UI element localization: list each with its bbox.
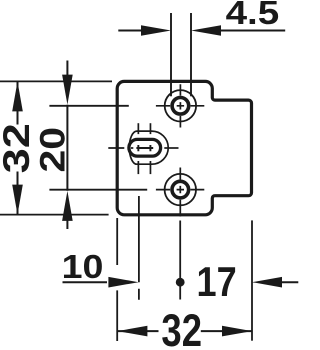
- oblong slot: hash mark left top: [137, 123, 139, 134]
- oblong slot: inner bar with end ticks: [136, 145, 153, 151]
- oblong slot: centerline dash at left arc: [131, 147, 133, 149]
- screw hole top: bold ring: [172, 98, 189, 115]
- dim 32 bottom: left arrowhead: [117, 326, 147, 337]
- oblong slot: outer outline: [129, 131, 168, 164]
- dim 4.5: left arrow shaft: [118, 30, 142, 32]
- screw hole bottom: bold ring: [172, 181, 189, 198]
- dim 20 left: bottom extension line: [49, 189, 147, 191]
- svg-text:4.5: 4.5: [226, 0, 280, 31]
- dim 20 left: bottom outside arrow shaft: [66, 215, 68, 229]
- screw hole top: center plus: [177, 102, 184, 109]
- oblong slot: hash mark right bottom: [149, 161, 151, 174]
- screw hole top: crosshair horizontal: [156, 105, 204, 107]
- dim 32 bottom: dimension line right: [201, 330, 252, 332]
- bottom dims: extension line from flange right edge: [251, 220, 253, 340]
- dim 4.5: extension line left: [170, 13, 172, 96]
- oblong slot: hash mark right top: [149, 123, 151, 134]
- bottom dims: extension line from slot left center: [138, 196, 140, 300]
- mounting plate body outline: [117, 81, 251, 214]
- dim 32 left: dimension line lower: [17, 172, 19, 215]
- dim 20 left: dimension line: [66, 105, 68, 191]
- dim 17: arrow shaft: [281, 281, 298, 283]
- svg-text:17: 17: [197, 260, 237, 306]
- dim 32 left: dimension line upper: [17, 81, 19, 124]
- dim 32 left: top arrowhead: [12, 81, 23, 111]
- dim 20 left: top extension line: [49, 105, 128, 107]
- screw hole top: outer circle: [165, 90, 196, 121]
- dim 17: arrowhead: [252, 277, 282, 288]
- dim 32 bottom: right arrowhead: [222, 326, 252, 337]
- dim 32 left: bottom extension line: [0, 214, 109, 216]
- dim 4.5: left arrowhead: [141, 25, 171, 36]
- svg-text:10: 10: [62, 249, 104, 285]
- dim 20 left: bottom outside arrowhead: [62, 191, 73, 221]
- screw hole bottom: outer circle: [165, 174, 196, 205]
- dim 4.5: right arrowhead: [191, 25, 221, 36]
- screw hole bottom: crosshair horizontal: [156, 189, 204, 191]
- dim 20 left: top outside arrowhead: [62, 75, 73, 105]
- screw hole bottom: center plus: [177, 186, 184, 193]
- svg-text:32: 32: [161, 305, 202, 350]
- screw hole bottom: crosshair vertical: [179, 168, 181, 217]
- dim 4.5: extension line right: [190, 13, 192, 96]
- bottom dims: reference dot on screw centerline: [176, 278, 185, 287]
- svg-text:32: 32: [0, 123, 37, 173]
- dim 32 bottom: dimension line left: [117, 330, 158, 332]
- bottom dims: extension line from body left edge: [116, 218, 118, 341]
- dim 10: arrowhead: [108, 277, 138, 288]
- oblong slot: hash mark left bottom: [137, 161, 139, 174]
- dim 32 left: top extension line: [0, 80, 112, 82]
- screw hole top: crosshair vertical: [179, 84, 181, 127]
- oblong slot: centerline right: [164, 147, 178, 149]
- bottom dims: extension line from screw centerline: [179, 221, 181, 300]
- svg-text:20: 20: [33, 127, 73, 173]
- oblong slot: centerline left: [108, 147, 124, 149]
- dim 20 left: top outside arrow shaft: [66, 61, 68, 81]
- dim 4.5: right arrow shaft: [220, 30, 285, 32]
- dim 32 left: bottom arrowhead: [12, 185, 23, 215]
- dim 10: arrow shaft: [63, 281, 108, 283]
- oblong slot: bold inner outline: [129, 139, 161, 156]
